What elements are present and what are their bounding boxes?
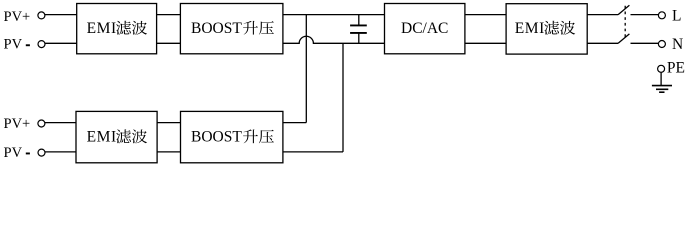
block EMI filter 2 (EMI滤波, AC output) xyxy=(506,4,587,54)
terminal PV+ (string 2) xyxy=(38,120,45,127)
ground (protective earth) xyxy=(652,72,672,92)
wire xyxy=(283,151,343,153)
label BOOST升压 (boost 2) xyxy=(191,129,274,146)
terminal PV+ (string 1) xyxy=(38,12,45,19)
svg-text:BOOST: BOOST xyxy=(191,129,242,146)
label PV+ (string 2) xyxy=(4,116,31,132)
svg-text:L: L xyxy=(672,7,681,24)
wire DC bus - (with crossover hop) xyxy=(283,36,385,43)
terminal N xyxy=(658,41,665,48)
svg-text:PV: PV xyxy=(4,145,23,161)
wire xyxy=(45,14,77,16)
svg-text:DC/AC: DC/AC xyxy=(401,20,448,37)
switch S1a (line pole) xyxy=(618,5,629,15)
wire xyxy=(465,42,506,44)
terminal L xyxy=(658,12,665,19)
wire xyxy=(587,14,618,16)
wire xyxy=(631,42,659,44)
wire xyxy=(587,42,618,44)
label L xyxy=(672,7,681,24)
label PE xyxy=(667,60,685,77)
wire xyxy=(157,122,180,124)
label EMI滤波 (filter 3) xyxy=(87,129,147,146)
terminal PE xyxy=(658,65,665,72)
block EMI filter 1 (EMI滤波) xyxy=(77,4,157,54)
wire xyxy=(45,151,76,153)
wire xyxy=(283,122,306,124)
wire xyxy=(631,14,659,16)
terminal PV- (string 2) xyxy=(38,149,45,156)
switch S1b (neutral pole) xyxy=(618,34,629,44)
label PV+ (string 1) xyxy=(4,9,31,25)
switch gang linkage (dashed) xyxy=(624,6,626,38)
wire xyxy=(157,42,181,44)
wire string-2 negative riser xyxy=(342,43,344,152)
svg-text:EMI: EMI xyxy=(87,129,117,146)
label PV- (string 1) xyxy=(4,37,30,53)
block BOOST converter 2 (BOOST升压, string 2) xyxy=(181,111,283,162)
wire xyxy=(45,42,77,44)
svg-text:PV+: PV+ xyxy=(4,9,31,25)
svg-text:PE: PE xyxy=(667,60,685,77)
block EMI filter 3 (EMI滤波, string 2) xyxy=(76,111,157,162)
label PV- (string 2) xyxy=(4,145,30,161)
svg-text:EMI: EMI xyxy=(515,20,545,37)
block BOOST converter 1 (BOOST升压) xyxy=(180,4,283,54)
wire xyxy=(157,14,181,16)
capacitor C1 (DC link) xyxy=(350,15,367,44)
svg-text:EMI: EMI xyxy=(87,20,117,37)
wire xyxy=(465,14,506,16)
svg-text:PV+: PV+ xyxy=(4,116,31,132)
label DC/AC xyxy=(401,20,448,37)
label N xyxy=(672,36,683,53)
wire xyxy=(45,122,76,124)
wire xyxy=(157,151,180,153)
terminal PV- (string 1) xyxy=(38,41,45,48)
label BOOST升压 (boost 1) xyxy=(191,20,274,37)
wire DC bus + xyxy=(283,14,385,16)
wire string-2 positive riser xyxy=(305,15,307,123)
block DC/AC inverter xyxy=(385,4,465,54)
svg-text:N: N xyxy=(672,36,683,53)
label EMI滤波 (filter 2) xyxy=(515,20,575,37)
svg-text:PV: PV xyxy=(4,37,23,53)
label EMI滤波 (filter 1) xyxy=(87,20,147,37)
svg-text:BOOST: BOOST xyxy=(191,20,242,37)
